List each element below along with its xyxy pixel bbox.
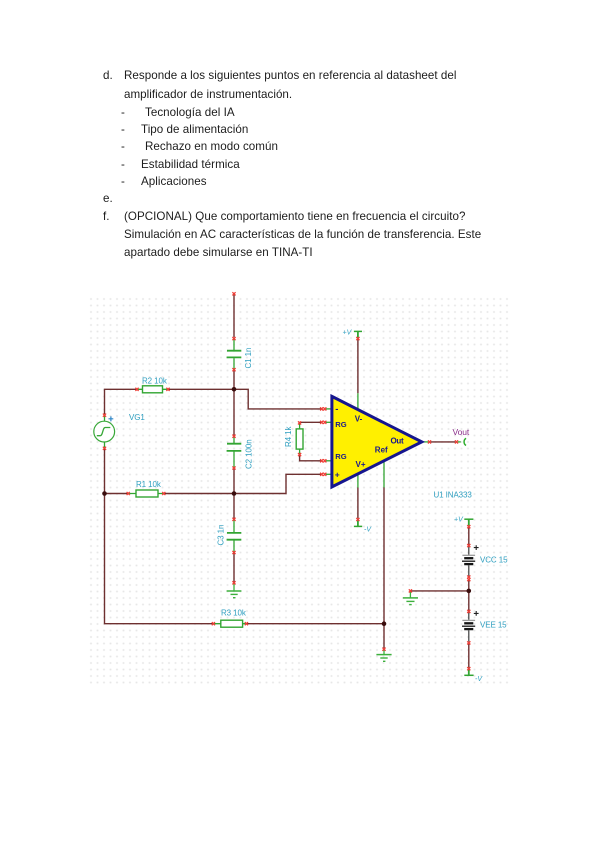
op-amp pin stub RG upper <box>326 421 334 423</box>
capacitor C2 <box>227 435 242 470</box>
svg-text:C1 1n: C1 1n <box>244 348 253 369</box>
wire VG1 bottom to left-bottom corner to R3 <box>105 449 214 624</box>
resistor R3 <box>212 620 248 627</box>
wire C3 bottom to ground <box>233 553 235 583</box>
wire C1 bottom to junction <box>233 371 235 390</box>
op-amp pin stub minus <box>326 408 334 410</box>
op-amp left pin marks <box>320 407 326 476</box>
Vout terminal <box>428 438 466 445</box>
node junction C2/R1 <box>232 491 237 496</box>
+V jack above VCC <box>464 519 473 526</box>
+V jack above op-amp <box>354 331 362 337</box>
-V jack below op-amp <box>354 520 362 526</box>
svg-text:+V: +V <box>454 517 464 524</box>
svg-text:R3 10k: R3 10k <box>221 609 247 618</box>
svg-text:VG1: VG1 <box>129 413 145 422</box>
-V terminal below VEE <box>464 670 473 676</box>
svg-text:R1 10k: R1 10k <box>136 480 162 489</box>
wire junction to op-amp minus pin <box>234 389 321 409</box>
op-amp pin stub RG lower <box>326 460 334 462</box>
wire R2 right to center junction <box>168 388 234 390</box>
svg-text:V-: V- <box>355 414 363 423</box>
wire junction down to C2 <box>233 389 235 435</box>
wire mid ground to junction <box>410 590 468 592</box>
svg-text:VCC 15: VCC 15 <box>480 555 508 564</box>
wire VCC battery to mid junction and to VEE battery <box>468 580 470 610</box>
svg-text:RG: RG <box>335 420 346 429</box>
svg-text:RG: RG <box>335 452 346 461</box>
wire VEE battery to -V terminal <box>468 644 470 668</box>
wire left branch top: R2 left corner down to VG1 <box>105 389 137 414</box>
svg-text:VEE 15: VEE 15 <box>480 620 507 629</box>
op-amp pin stub Out <box>422 441 429 443</box>
resistor R4 <box>296 421 303 456</box>
capacitor C3 <box>227 518 242 554</box>
wire R1 row: junction to R1 left <box>105 493 128 495</box>
wire V+ pin down to -V jack <box>357 487 359 518</box>
node junction VG1/R1 <box>102 491 107 496</box>
wire R4 bottom to RG lower pin <box>300 455 322 460</box>
svg-text:C2 100n: C2 100n <box>245 439 254 469</box>
wire Ref pin down to bottom junction and ground <box>383 487 385 648</box>
resistor R2 <box>135 386 169 393</box>
wire R1 junction down to C3 <box>233 494 235 519</box>
capacitor C1 <box>227 337 242 371</box>
wire end mark top of C1 branch <box>232 292 235 295</box>
wire +V jack down to VCC battery <box>468 527 470 544</box>
svg-text:+: + <box>335 469 340 479</box>
battery VEE 15 <box>462 610 479 645</box>
resistor R1 <box>127 490 166 497</box>
svg-text:Ref: Ref <box>375 446 388 455</box>
mid ground between batteries <box>403 592 418 605</box>
node junction R2/C1/C2 <box>232 387 237 392</box>
ground below C3 <box>227 583 242 597</box>
ground below Ref junction <box>376 650 391 661</box>
wire C2 bottom to R1 junction <box>233 469 235 494</box>
document text <box>103 69 113 82</box>
wire RG upper: op-amp to R4 top <box>300 421 322 423</box>
node junction batteries <box>467 589 472 594</box>
op-amp pin stub plus <box>326 473 334 475</box>
svg-text:Out: Out <box>391 436 405 445</box>
wire R3 right to bottom junction <box>247 623 384 625</box>
svg-text:U1 INA333: U1 INA333 <box>434 491 473 500</box>
svg-text:C3 1n: C3 1n <box>217 525 226 546</box>
svg-text:Vout: Vout <box>453 427 470 437</box>
wire op-amp output to Vout terminal <box>431 441 456 443</box>
op-amp pin stub V- <box>357 393 359 410</box>
node junction R3/Ref <box>382 621 387 626</box>
svg-text:R4 1k: R4 1k <box>284 426 293 447</box>
op-amp pin stub V+ <box>357 471 359 488</box>
wire top stub above C1 <box>233 294 235 337</box>
svg-text:R2 10k: R2 10k <box>142 377 168 386</box>
wire R1 right to op-amp + pin <box>164 474 321 493</box>
svg-text:V+: V+ <box>356 460 366 469</box>
op-amp pin stub Ref <box>383 458 385 488</box>
wire V- pin up to +V jack <box>357 339 359 393</box>
svg-text:+V: +V <box>343 330 353 337</box>
battery VCC 15 <box>462 544 479 581</box>
voltage source VG1 <box>94 414 115 450</box>
op-amp U1 INA333 triangle <box>332 396 422 487</box>
svg-text:-: - <box>335 404 338 415</box>
